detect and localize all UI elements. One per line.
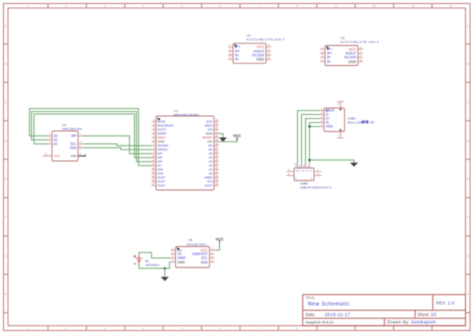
svg-text:New Schematic: New Schematic — [308, 302, 350, 308]
svg-text:A: A — [5, 24, 7, 28]
svg-text:Micro USB: Micro USB — [348, 121, 363, 125]
svg-text:ACS714ELCTR-20A-T: ACS714ELCTR-20A-T — [341, 40, 380, 44]
wire net A2 (U3.A2 to U1.D5*) — [34, 114, 152, 158]
wire USB1.D+ to USB2.3 — [306, 119, 320, 164]
wire battery+ to U5.VBAT — [139, 253, 171, 259]
svg-text:9: 9 — [335, 4, 337, 8]
svg-text:GND: GND — [348, 60, 356, 64]
svg-text:24FC256-ISN: 24FC256-ISN — [62, 127, 82, 131]
power flag VCC at U1 — [233, 134, 241, 140]
svg-text:D-: D- — [302, 170, 305, 172]
IC U2 ACS714ELCTR-20A-T body — [320, 46, 363, 66]
label U5 reference — [187, 238, 207, 246]
svg-text:VCC: VCC — [296, 170, 301, 172]
svg-text:7: 7 — [258, 327, 260, 331]
svg-text:H: H — [5, 292, 7, 296]
connector USB1 Micro USB body — [320, 102, 345, 139]
label U2 reference — [341, 36, 380, 44]
svg-text:ACS714ELCTR-20A-T: ACS714ELCTR-20A-T — [246, 38, 285, 42]
svg-text:IO12*: IO12* — [158, 184, 167, 188]
svg-text:F: F — [5, 215, 7, 219]
wire U1.GND to ground — [219, 134, 224, 138]
IC U5 DS1307ZN+ body — [171, 247, 215, 268]
svg-text:IP-: IP- — [235, 58, 240, 62]
svg-text:G: G — [307, 165, 309, 167]
svg-text:G: G — [310, 170, 312, 172]
svg-text:IO13*: IO13* — [205, 184, 214, 188]
svg-text:D-: D- — [299, 164, 301, 167]
wire net WP (U3.WP to U1.D4*) — [83, 136, 152, 154]
svg-text:5: 5 — [181, 4, 183, 8]
wire USB1.D- to USB2.2 — [302, 115, 320, 164]
label USB2 reference — [300, 181, 332, 189]
ground symbol at USB net — [350, 163, 358, 167]
IC U1 ARDUINO-MICRO body — [152, 116, 219, 190]
svg-text:GND: GND — [178, 260, 186, 264]
battery B1 CR1220 — [133, 255, 142, 264]
svg-text:7: 7 — [258, 4, 260, 8]
wire GND net to ground symbol — [310, 160, 355, 162]
svg-text:D: D — [467, 139, 469, 143]
label USB1 reference — [348, 117, 375, 125]
svg-text:C: C — [5, 100, 7, 104]
label U1 reference — [174, 109, 200, 117]
svg-text:A: A — [467, 24, 469, 28]
svg-text:GND: GND — [256, 58, 264, 62]
svg-text:ARDUINO-MICRO: ARDUINO-MICRO — [174, 113, 200, 117]
svg-text:6: 6 — [219, 4, 221, 8]
svg-text:D: D — [5, 139, 7, 143]
svg-text:1: 1 — [27, 327, 29, 331]
svg-text:E: E — [467, 177, 469, 181]
wire net SCL (U3.SCL to U1.D2/SDA) — [83, 144, 152, 146]
wire net SDA (U3.SDA to U1.D3/SCL) — [83, 148, 152, 150]
svg-text:B: B — [467, 62, 469, 66]
wire USB1.VBUS to USB2.1 — [298, 111, 320, 164]
svg-text:F: F — [467, 215, 469, 219]
svg-text:4: 4 — [142, 4, 144, 8]
power flag VCC at U5 — [215, 238, 223, 243]
wire U5.VCC to VCC flag — [215, 242, 220, 250]
svg-text:2: 2 — [65, 4, 67, 8]
svg-text:7: 7 — [338, 134, 340, 137]
ground symbol at battery — [161, 277, 169, 281]
title block — [303, 295, 466, 326]
junction dot GND branch — [308, 159, 310, 161]
svg-text:SP: SP — [370, 121, 374, 125]
svg-text:Sheet: 1/1: Sheet: 1/1 — [418, 312, 438, 317]
svg-text:SDA: SDA — [201, 260, 209, 264]
wire battery- to U5.GND — [139, 262, 171, 268]
label U4 reference — [246, 34, 285, 42]
label U3 reference — [62, 123, 82, 131]
svg-text:12: 12 — [450, 4, 453, 8]
svg-text:Drawn By: bombapiotr: Drawn By: bombapiotr — [387, 320, 436, 325]
svg-text:WP: WP — [71, 134, 76, 138]
svg-text:Date:: Date: — [306, 312, 316, 317]
svg-text:EasyEDA V5.8.20: EasyEDA V5.8.20 — [306, 321, 334, 325]
wire U1.+5V to VCC flag — [219, 140, 238, 141]
svg-text:SDA: SDA — [70, 146, 77, 150]
wire net A1 (U3.A1 to U1.D6*) — [32, 112, 152, 162]
svg-text:IP-: IP- — [327, 60, 332, 64]
wire net A0 (U3.A0 to U1.D7) — [30, 109, 152, 166]
svg-text:TITLE:: TITLE: — [306, 296, 316, 300]
label B1 reference — [145, 259, 159, 267]
svg-text:C: C — [467, 100, 469, 104]
ground flag at U3 VSS pin — [78, 154, 86, 156]
svg-text:DS1307ZN+: DS1307ZN+ — [187, 242, 207, 246]
svg-text:VSS: VSS — [70, 154, 76, 158]
ground symbol at U1 — [219, 138, 227, 142]
svg-text:3: 3 — [104, 4, 106, 8]
junction dot battery gnd — [164, 267, 166, 269]
svg-text:10: 10 — [373, 4, 376, 8]
svg-text:E: E — [5, 177, 7, 181]
svg-text:USB-AF-10X14.5-H7.2: USB-AF-10X14.5-H7.2 — [300, 185, 332, 189]
svg-text:1: 1 — [27, 4, 29, 8]
svg-text:6: 6 — [338, 103, 340, 106]
wire USB1.GND down to USB2.4 — [310, 123, 320, 164]
svg-text:CR1220-2: CR1220-2 — [145, 263, 159, 267]
svg-text:8: 8 — [296, 327, 298, 331]
svg-text:2: 2 — [65, 327, 67, 331]
svg-text:8: 8 — [296, 4, 298, 8]
svg-text:GND: GND — [326, 125, 334, 129]
svg-text:6: 6 — [219, 327, 221, 331]
svg-text:B: B — [5, 62, 7, 66]
junction dot GND/ID — [308, 125, 310, 127]
svg-text:5: 5 — [181, 327, 183, 331]
wire junction to ground — [164, 268, 166, 276]
pin-1 marker U1 — [157, 117, 160, 120]
svg-text:VCC: VCC — [54, 154, 61, 158]
svg-text:REV: 1.0: REV: 1.0 — [436, 301, 455, 306]
wire USB1.ID join GND — [310, 122, 320, 124]
connector USB2 USB-AF body — [287, 163, 322, 181]
svg-text:2018-11-17: 2018-11-17 — [325, 312, 351, 317]
svg-text:3: 3 — [104, 327, 106, 331]
svg-text:G: G — [467, 254, 469, 258]
svg-text:G: G — [5, 254, 7, 258]
svg-text:H: H — [467, 292, 469, 296]
IC U4 ACS714ELCTR-20A-T body — [228, 43, 271, 63]
svg-text:A2: A2 — [54, 142, 58, 146]
svg-text:11: 11 — [412, 4, 415, 8]
svg-text:4: 4 — [142, 327, 144, 331]
IC U3 24FC256-ISN body — [43, 131, 83, 161]
